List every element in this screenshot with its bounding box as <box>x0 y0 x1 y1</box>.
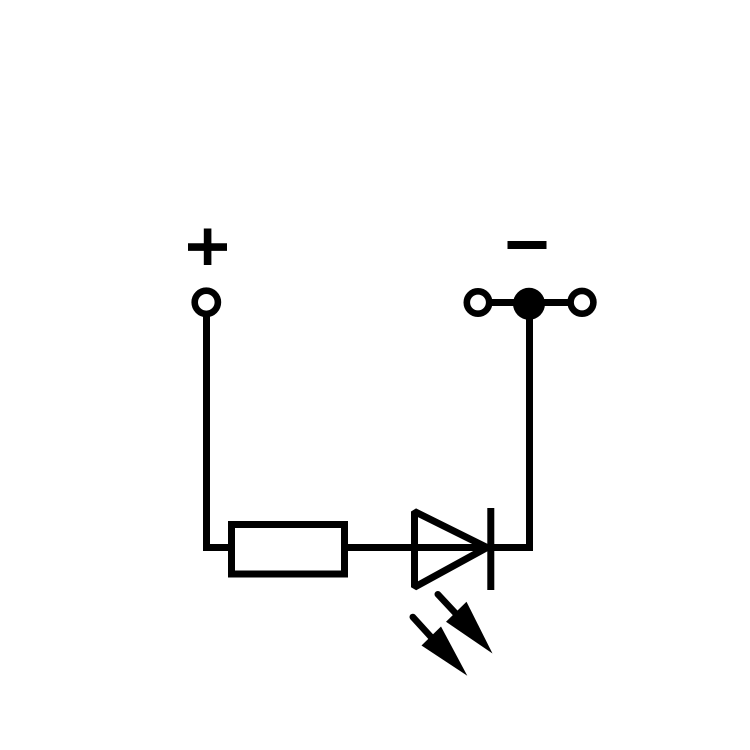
minus label (−) at negative terminal <box>508 241 547 249</box>
wire: negative bus between terminal circles <box>478 299 582 306</box>
wire: resistor output to LED anode and through to cathode <box>344 544 490 551</box>
terminal circle under + (positive clamp) <box>195 291 218 314</box>
wire: LED cathode right and up to junction node <box>487 306 530 548</box>
junction node (solid dot) <box>513 288 545 320</box>
resistor R (series resistor box) <box>232 525 345 575</box>
LED D cathode bar <box>487 508 494 590</box>
plus label (+) at positive terminal <box>188 229 227 266</box>
LED D anode triangle <box>415 512 488 588</box>
LED emission arrow 1 (upper) <box>438 594 493 653</box>
terminal circle left of junction (negative clamp) <box>467 291 489 313</box>
terminal circle right of junction (negative clamp) <box>571 291 594 314</box>
LED emission arrow 2 (lower) <box>413 617 468 676</box>
wire: + terminal down and right to resistor <box>207 312 236 548</box>
